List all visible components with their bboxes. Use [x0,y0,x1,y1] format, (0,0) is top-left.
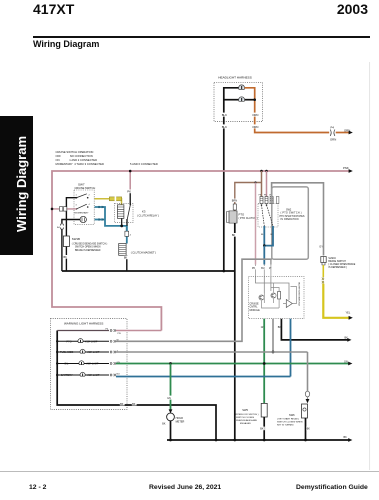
wire orange headlight [245,88,330,133]
svg-text:BU: BU [261,267,265,270]
svg-text:4: 4 [89,204,91,206]
svg-text:K3: K3 [142,210,146,214]
connector pin PTO [233,204,236,210]
wire SW5 to bus [263,417,265,440]
SW7 momentary pushbutton [80,216,86,222]
wire gray row PTO to SW2 housing [116,259,272,341]
wire teal down to clutch magnet [126,226,128,244]
label BK on bottom run [120,402,125,406]
svg-text:3: 3 [76,204,78,206]
wire blue long to module [116,376,291,378]
wire pink drop SW2 pin B [266,171,268,197]
module input labels [252,266,260,269]
SW7 contact row2 [76,208,78,210]
wire brown PTO feed [235,183,262,200]
junction headlight pto bus [233,439,236,442]
connector row BATTERY [110,374,116,376]
footer rule [0,470,379,473]
lamp L1 headlight [239,85,245,89]
svg-text:BRAKE SWITCH: BRAKE SWITCH [328,260,346,263]
label ORN upper [252,113,258,117]
wire orange to right arrow [336,132,349,134]
wire sw7 row3 left black [62,220,80,224]
header rule [33,36,370,38]
section title [33,39,99,49]
junction hour meter bus [169,439,172,442]
SW7 contact row1 [76,197,78,199]
junction pink to brown drop [260,170,263,173]
svg-text:ORN: ORN [330,137,336,141]
svg-text:IS DEPRESSED ): IS DEPRESSED ) [328,267,347,269]
connector on teal row2 [98,206,103,208]
svg-text:SW1B: SW1B [72,237,80,241]
wire SW6 to bus [305,418,307,440]
svg-text:4: 4 [130,234,132,236]
label ORN lower [252,124,258,128]
svg-text:KEY IS TURNED: KEY IS TURNED [277,425,294,427]
svg-text:( INTERLOCK SWITCH ): ( INTERLOCK SWITCH ) [234,414,259,416]
svg-text:GN: GN [344,360,348,363]
switch SW6 key start [302,404,308,418]
svg-text:HEADLIGHT HARNESS: HEADLIGHT HARNESS [218,76,251,80]
svg-text:ON 1 AND 2 CONNECT: ON 1 AND 2 CONNECTED [56,158,98,162]
svg-text:BK: BK [132,403,136,406]
module internal gray drop [270,276,272,291]
svg-text:PTO: PTO [239,212,246,216]
svg-text:B4: B4 [57,227,60,229]
svg-text:( CLOSED WHEN BRAKE: ( CLOSED WHEN BRAKE [328,263,355,266]
wire teal SW7 row2 [95,207,127,231]
headlight harness box [214,83,263,122]
module internal bus [256,276,290,300]
switch SW7 cruise switch box [74,190,94,224]
footer guide name [296,484,368,491]
SW2 pin C [270,197,273,204]
legend cruise switch operation text [56,150,158,166]
bottom ground bus [167,439,349,441]
svg-text:CRUISE SWITCH: CRUISE SWITCH [75,186,96,190]
svg-text:BU: BU [117,373,120,375]
svg-text:( KEY START RELAY ): ( KEY START RELAY ) [277,418,299,421]
wire pink into SW7 [52,208,77,210]
label BK clutch magnet drop [124,256,129,260]
relay K3 contact [129,193,131,204]
SW2 pin B [265,197,268,204]
label BLK lower [221,124,226,128]
svg-text:IN OPERATION: IN OPERATION [281,218,299,221]
module internal links [262,283,287,308]
svg-text:BRAKE IS DEPRESSED: BRAKE IS DEPRESSED [75,249,101,252]
SW2 contact dashed box [258,204,278,228]
svg-text:ORN: ORN [252,125,258,129]
wire green drop to hour meter [170,364,172,410]
svg-text:WHEN BLADES ARE: WHEN BLADES ARE [236,419,257,422]
junction warning bus [215,439,218,442]
junction gray [272,351,275,354]
svg-text:BLK: BLK [222,113,227,117]
connector pink row [110,329,116,331]
connector 4 on clutch wire [125,231,129,236]
module U1 cruise control module box [249,276,305,318]
junction SW5 bus [263,439,266,442]
svg-text:BK: BK [64,256,68,259]
svg-text:WARNING LIGHT HARNESS: WARNING LIGHT HARNESS [64,322,103,326]
wire pink drop to relay contact [129,171,131,190]
wire gray drop to SW6 [307,352,309,392]
lamp BATTERY row [61,373,74,377]
wire hour meter to bus [170,421,172,440]
wire brown to PTO pin [234,202,236,211]
module resistor R1 [278,292,281,300]
label GN hour meter [167,396,174,400]
module label [250,303,261,312]
SW2 pin A [260,197,263,204]
wire green long with arrow [116,363,349,365]
SW2 contact b [266,204,268,206]
lamp FUEL row [59,350,73,354]
wire yellow down and right arrow [323,284,349,318]
svg-text:SW5: SW5 [242,408,248,412]
svg-text:PNK: PNK [343,166,349,170]
PTO clutch coil [229,211,237,223]
svg-text:MOMENTARY: MOMENTARY [75,211,90,214]
svg-text:5 AND 6 CONNECTED: 5 AND 6 CONNECTED [130,162,158,166]
svg-text:ORN: ORN [252,113,258,117]
module transistor Q2 [271,293,276,298]
junction orange lamp2 [253,98,256,101]
clutch magnet coil [119,244,126,256]
switch SW5 interlock [261,403,267,417]
svg-text:PK: PK [252,267,256,270]
ground bus wire horizontal [62,270,235,272]
wire pink row continue [116,330,161,332]
module internal blue drop [263,276,265,293]
switch SW1B brake override [63,236,69,247]
label BK sw1b [63,255,68,259]
svg-text:VOLTAGE REGULATOR: VOLTAGE REGULATOR [298,282,301,306]
wire gray W stub into module [270,259,272,264]
junction pink [51,208,54,211]
svg-text:BK: BK [344,436,348,439]
scan artifact faint line [369,62,371,470]
wire clutch magnet to ground [126,255,128,271]
warning harness bus [57,331,216,441]
svg-text:BK: BK [307,428,311,431]
wire blue to module [263,246,265,265]
wire pink row to harness [57,330,109,332]
svg-text:SW7: SW7 [78,183,85,187]
wire left drop to ground [61,229,63,271]
svg-text:OFF NO CONNECTION: OFF NO CONNECTION [56,154,93,158]
svg-text:METER: METER [176,420,185,423]
svg-text:BK: BK [232,234,236,237]
svg-text:SWITCH CLOSES: SWITCH CLOSES [236,417,255,419]
junction headlight black at ground [222,270,225,273]
wire gray module to long gray [272,319,274,352]
wire headlamp feed black top [224,88,239,271]
SW2 contact a [261,204,263,206]
svg-text:( CRUISE DISENGAGE SWITCH ): ( CRUISE DISENGAGE SWITCH ) [72,242,108,245]
module transistor Q1 [259,295,264,300]
connector SLM04 [321,257,326,263]
svg-text:CRUISE SWITCH OPERATION: CRUISE SWITCH OPERATION [56,150,94,154]
svg-text:BK: BK [260,428,264,431]
wire black module to arrow [281,319,347,340]
connector B4 on left drop [60,224,63,229]
junction pink drop pin B [265,170,268,173]
connector row FUEL [110,351,116,353]
connector oval SW6 [305,391,309,397]
svg-text:MODULE: MODULE [250,309,261,312]
svg-text:ORN: ORN [344,129,350,133]
junction SW6 bus [304,439,307,442]
relay coil bottom wire [121,218,123,226]
connector row OIL [110,362,116,364]
svg-text:BLK: BLK [222,125,227,129]
SW2 pin D unused [276,197,279,204]
relay K3 box [115,203,133,222]
svg-text:BK: BK [120,403,124,406]
junction green module drop [263,362,266,365]
label SW2 PTO switch [280,209,305,222]
module opamp triangle [286,300,292,308]
connector on yellow wire [109,197,121,201]
label BLK upper [221,113,226,117]
wire SW1B to ground [65,247,67,272]
wire teal SW7 row3 [95,219,105,221]
label SLM04 brake switch [328,258,355,269]
connector row PTO [110,340,116,342]
svg-text:GY: GY [319,245,323,248]
svg-text:YEL: YEL [346,312,351,315]
wire lamp2 right black [245,99,255,101]
wire teal module to long blue [290,319,292,377]
lamp PTO row [66,339,73,343]
lamp L2 headlight [239,97,245,101]
svg-text:SWITCH OPENS WHEN: SWITCH OPENS WHEN [75,247,101,249]
label BK SW6 [306,427,311,431]
wire sw7 row1 left to SW1B [66,198,76,236]
svg-text:( CLUTCH RELAY ): ( CLUTCH RELAY ) [137,214,159,217]
junction pink relay [129,170,132,173]
wire gray long row FUEL [116,351,308,353]
svg-text:SW6: SW6 [289,413,295,417]
warning light harness box [51,319,128,410]
wire PTO clutch down to bottom bus [234,223,236,440]
svg-text:P4: P4 [331,126,335,130]
connector on yellow [322,278,324,284]
junction coil to teal [120,225,123,228]
svg-text:SWITCH CLOSES WHEN: SWITCH CLOSES WHEN [277,422,303,424]
label BK SW5 [260,427,265,431]
svg-text:SLM04: SLM04 [328,258,336,260]
label BK pto [232,233,237,237]
header model name [33,1,74,17]
svg-text:ENGAGED: ENGAGED [240,422,251,425]
relay K3 coil [118,205,124,219]
junction blue [263,244,266,247]
wire yellow from SLM04 [322,265,324,277]
wire blue SW2 contacts join [264,226,273,246]
header year [337,1,368,17]
switch SW2 housing box [272,187,309,259]
wire brown drop SW2 pin A [261,171,263,197]
wire green module to SW5 [263,319,265,404]
connector on teal row3 [98,219,103,221]
junction green hour meter [169,362,172,365]
wire gray from SW2 pin C to SLM04 [272,183,324,256]
svg-text:PK: PK [127,190,131,194]
lamp OIL row [64,361,70,365]
junction brown tee [254,181,256,183]
svg-text:GN: GN [167,397,171,400]
svg-text:( CLUTCH MAGNET ): ( CLUTCH MAGNET ) [131,251,157,255]
svg-text:BK: BK [162,422,166,425]
svg-text:BK: BK [345,337,349,340]
footer revision [149,484,221,491]
wire headlamp feed black lower [224,99,239,101]
wire pink drop to module PK [255,183,257,265]
svg-text:MOMENTARY 4 THRU 3 CONNECTED: MOMENTARY 4 THRU 3 CONNECTED [56,162,104,166]
wire yellow SW7 to relay coil [95,199,122,205]
svg-text:2: 2 [89,194,91,196]
connector P4 on orange wire [329,129,335,136]
svg-text:BK: BK [124,257,128,260]
side tab Wiring Diagram [0,116,33,255]
label BRN [232,199,238,203]
footer page number [29,484,46,491]
connector pair on pink wire [59,207,62,211]
svg-text:1: 1 [76,194,78,196]
hour meter M1 [167,413,175,421]
svg-text:PN: PN [118,333,121,335]
wire pink main horizontal [52,171,349,331]
